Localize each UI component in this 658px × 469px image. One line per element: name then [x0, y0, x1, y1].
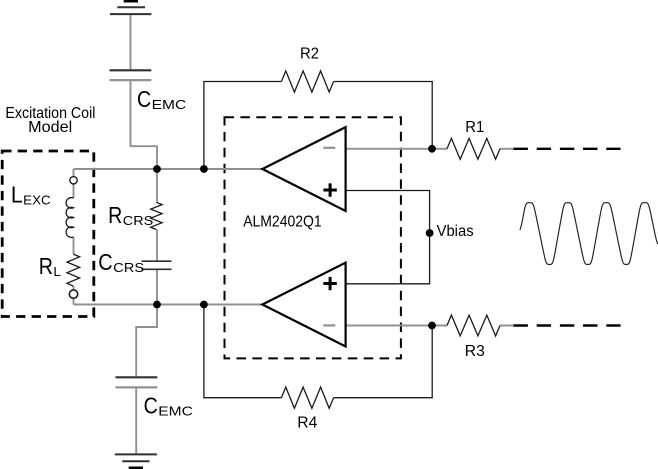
svg-text:C: C	[98, 249, 112, 275]
svg-text:C: C	[144, 393, 158, 419]
svg-text:Vbias: Vbias	[437, 223, 474, 240]
svg-text:L: L	[53, 264, 61, 279]
svg-text:ALM2402Q1: ALM2402Q1	[243, 213, 322, 230]
svg-text:CRS: CRS	[113, 260, 144, 275]
svg-text:R: R	[39, 253, 53, 279]
svg-text:EMC: EMC	[152, 97, 187, 112]
svg-text:EXC: EXC	[23, 193, 51, 208]
svg-text:R: R	[108, 202, 122, 228]
svg-text:R4: R4	[297, 414, 317, 431]
svg-text:C: C	[137, 86, 151, 112]
svg-text:Model: Model	[28, 119, 72, 136]
svg-text:EMC: EMC	[158, 404, 193, 419]
svg-text:R3: R3	[465, 343, 485, 360]
svg-text:L: L	[11, 182, 23, 208]
svg-text:R2: R2	[300, 45, 319, 62]
svg-text:R1: R1	[465, 119, 484, 136]
svg-text:CRS: CRS	[123, 213, 154, 228]
